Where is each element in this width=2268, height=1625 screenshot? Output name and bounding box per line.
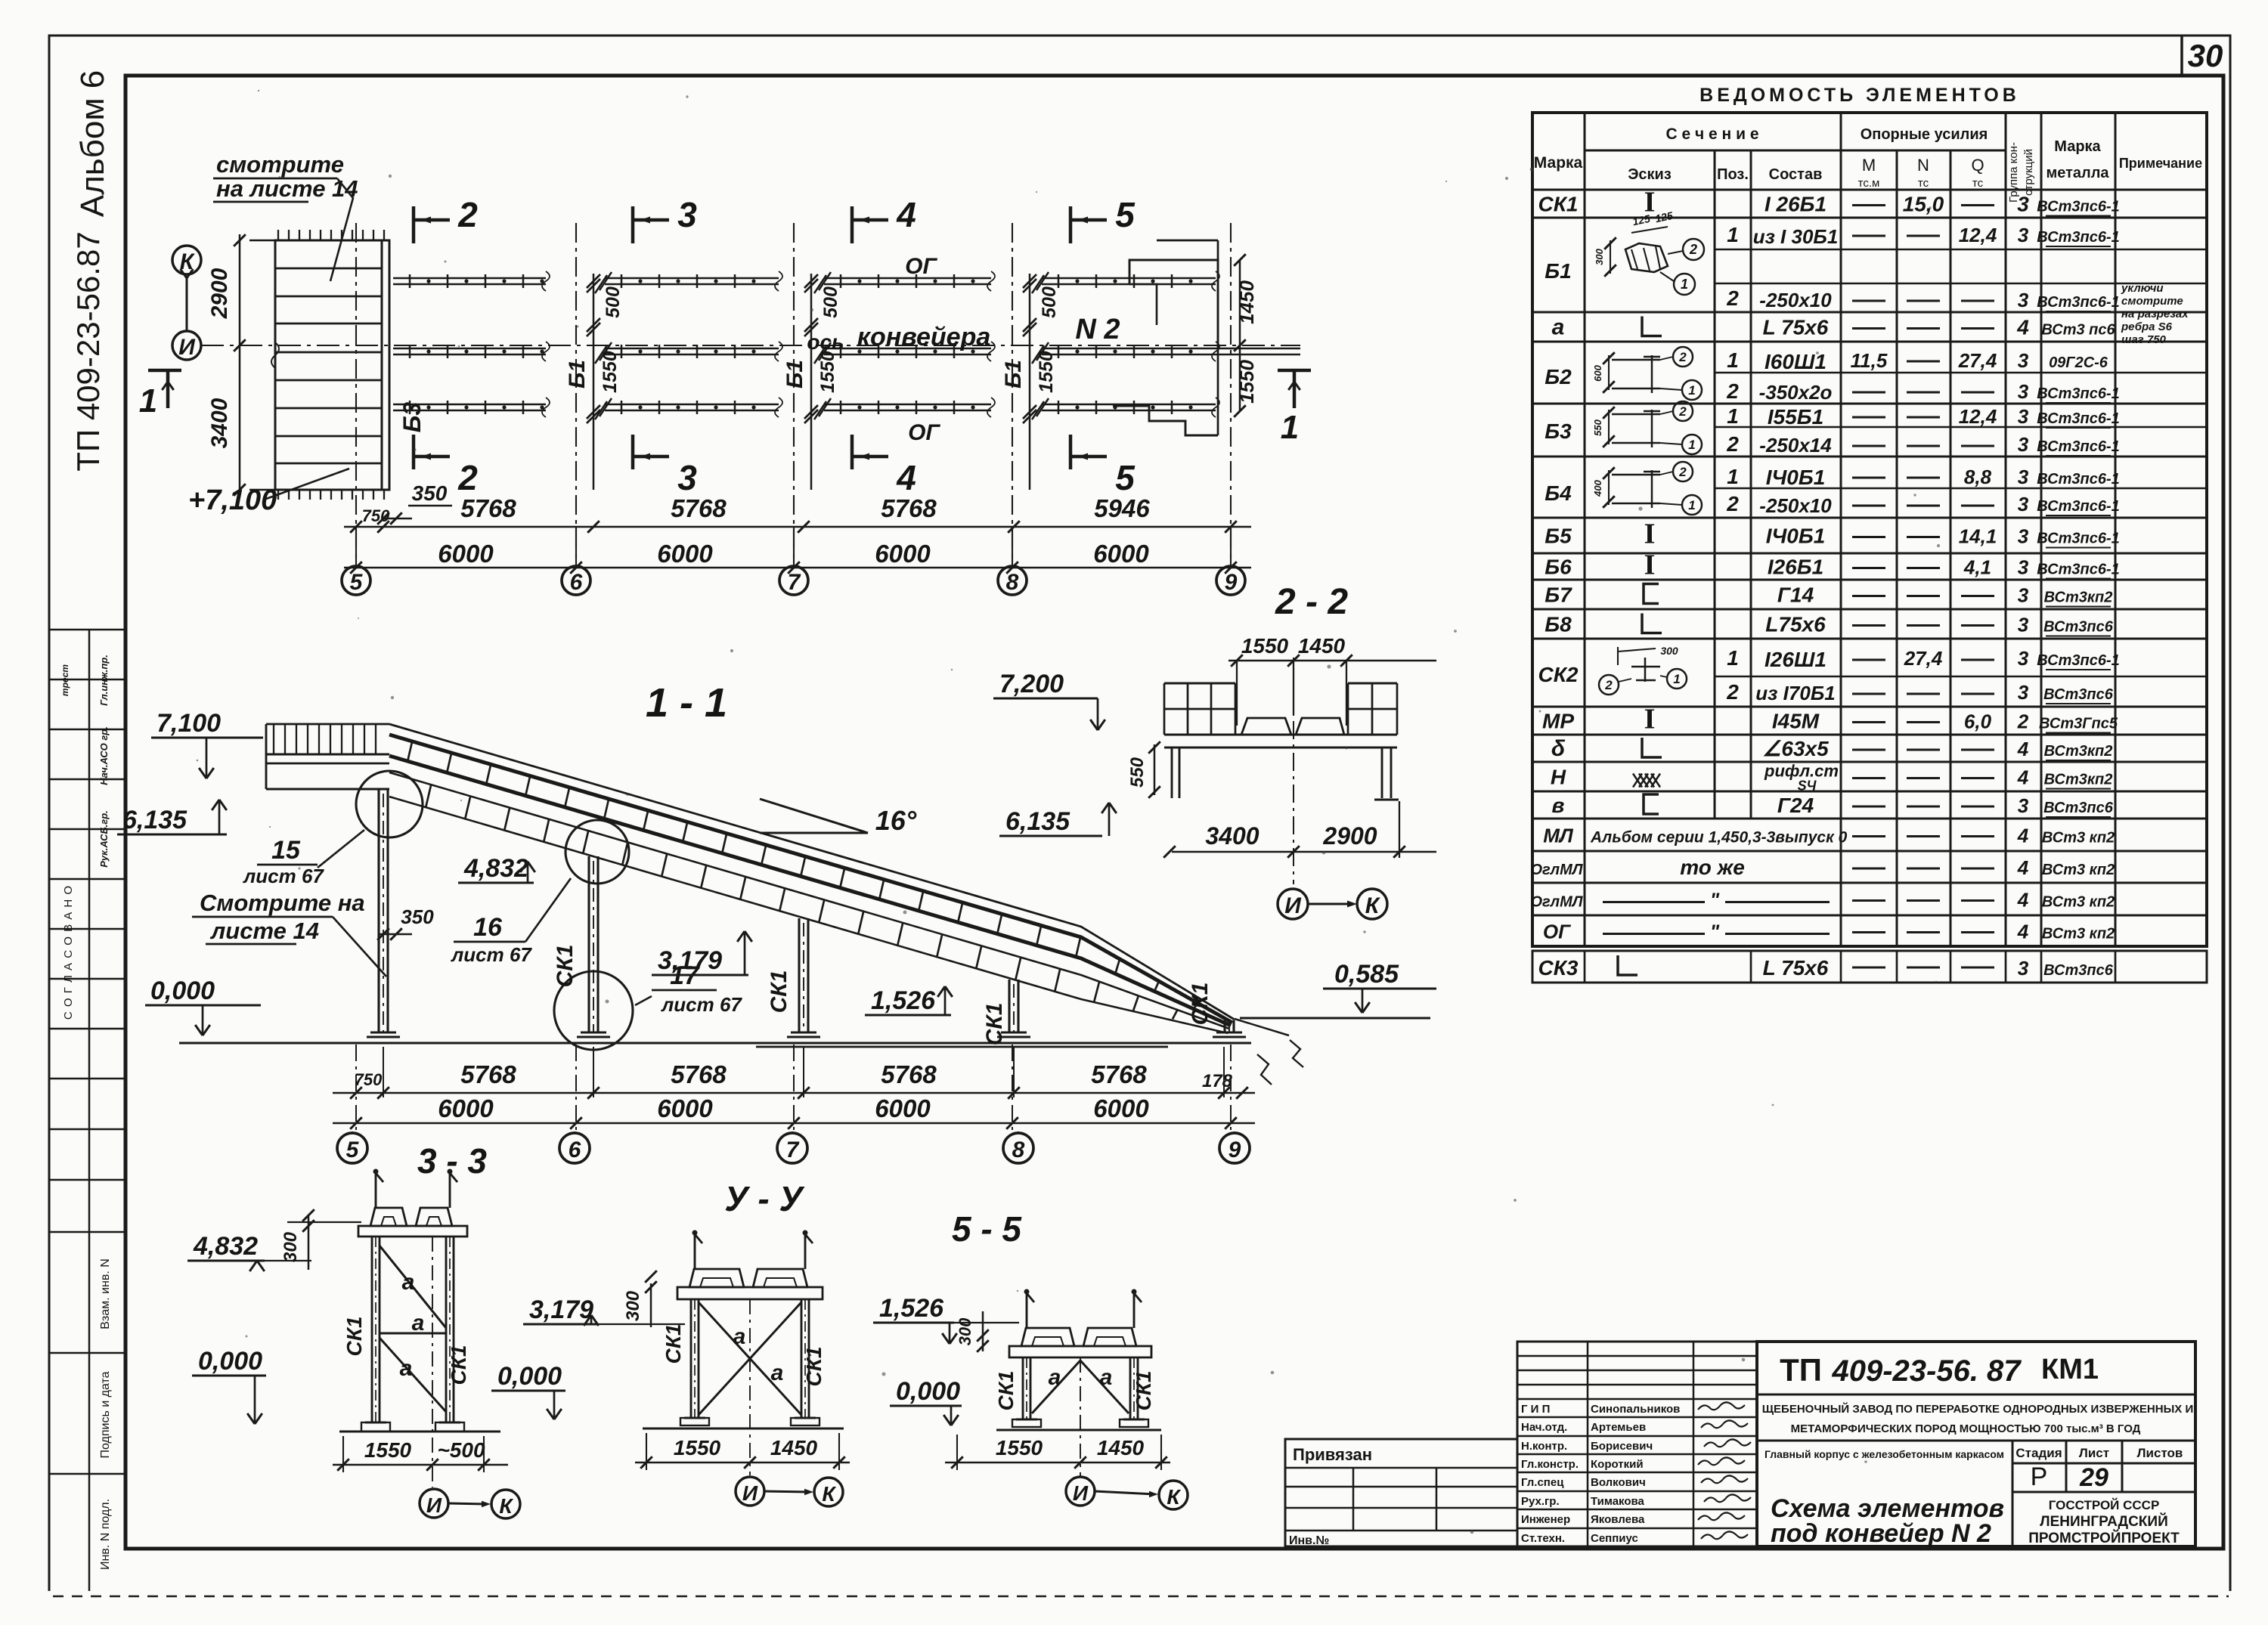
svg-text:+7,100: +7,100 xyxy=(188,484,277,516)
section 4-4 column frame xyxy=(694,1234,696,1269)
svg-text:1550: 1550 xyxy=(364,1438,412,1462)
svg-text:4,1: 4,1 xyxy=(1963,556,1991,579)
svg-text:Б3: Б3 xyxy=(1545,419,1572,443)
svg-text:6000: 6000 xyxy=(438,1094,494,1122)
svg-text:ВСт3 кп2: ВСт3 кп2 xyxy=(2042,862,2115,878)
svg-text:ВСт3пс6: ВСт3пс6 xyxy=(2043,686,2114,703)
grid bubble I xyxy=(172,331,201,360)
section 1-1: dimension row 750/5768/178 xyxy=(333,1092,1255,1094)
svg-text:Борисевич: Борисевич xyxy=(1591,1440,1653,1453)
svg-text:3: 3 xyxy=(677,458,697,497)
svg-text:на разрезах: на разрезах xyxy=(2121,308,2189,320)
svg-text:ВСт3пс6-1: ВСт3пс6-1 xyxy=(2037,562,2120,578)
svg-text:4: 4 xyxy=(2016,316,2029,339)
svg-text:шаг 750: шаг 750 xyxy=(2121,333,2167,346)
svg-text:2: 2 xyxy=(2017,710,2029,733)
svg-text:1550: 1550 xyxy=(600,351,621,393)
svg-text:Подпись и дата: Подпись и дата xyxy=(99,1371,112,1458)
svg-text:К: К xyxy=(822,1482,836,1506)
privyazan table xyxy=(1285,1439,1517,1546)
section 1-1: dimension row 6000 xyxy=(333,1122,1255,1125)
plan: right vertical dim 1450/1550 xyxy=(1239,260,1241,411)
svg-text:Смотрите на: Смотрите на xyxy=(200,890,365,916)
section 5-5 column frame xyxy=(1026,1293,1028,1328)
section 1-1: grid bubbles 5-9 xyxy=(337,1133,367,1163)
svg-text:5768: 5768 xyxy=(671,1060,727,1088)
svg-text:Б3: Б3 xyxy=(398,402,426,433)
svg-text:СК1: СК1 xyxy=(342,1316,366,1356)
svg-text:-250х14: -250х14 xyxy=(1759,434,1832,457)
svg-text:в: в xyxy=(1552,794,1565,817)
section 3-3 bottom dims 1550 / ~500 xyxy=(333,1464,508,1466)
plan: dimension row 6000 xyxy=(344,567,1251,569)
svg-text:350: 350 xyxy=(401,905,434,928)
svg-text:ВСт3кп2: ВСт3кп2 xyxy=(2044,590,2113,606)
svg-text:Инженер: Инженер xyxy=(1521,1513,1570,1526)
svg-text:лист 67: лист 67 xyxy=(660,993,742,1016)
plan: beam marks B1 and vertical dims 500/1550 at grids 6,7,8 xyxy=(593,274,595,490)
svg-text:2: 2 xyxy=(1678,404,1687,419)
svg-text:Р: Р xyxy=(2031,1462,2048,1491)
svg-text:4,832: 4,832 xyxy=(193,1232,258,1261)
svg-text:Б7: Б7 xyxy=(1545,583,1572,607)
svg-text:К: К xyxy=(1167,1485,1181,1509)
svg-text:L 75х6: L 75х6 xyxy=(1763,316,1829,339)
svg-text:СК1: СК1 xyxy=(994,1370,1018,1410)
section 1-1: ground at +0.585 right end xyxy=(1240,1017,1430,1019)
svg-text:СК1: СК1 xyxy=(661,1323,685,1363)
svg-text:смотрите: смотрите xyxy=(2121,295,2183,308)
svg-text:0,000: 0,000 xyxy=(150,977,215,1005)
svg-text:металла: металла xyxy=(2046,165,2109,181)
svg-text:ВСт3пс6-1: ВСт3пс6-1 xyxy=(2037,498,2120,515)
plan: stair platform block xyxy=(275,240,389,490)
svg-text:550: 550 xyxy=(1127,757,1148,788)
svg-text:СК1: СК1 xyxy=(447,1345,470,1385)
svg-text:Г24: Г24 xyxy=(1777,794,1814,817)
svg-text:1: 1 xyxy=(1727,465,1739,488)
svg-text:ВСт3пс6-1: ВСт3пс6-1 xyxy=(2037,385,2120,402)
svg-text:14,1: 14,1 xyxy=(1959,525,1997,548)
plan: break squiggle on block left edge xyxy=(271,342,279,368)
svg-text:С е ч е н и е: С е ч е н и е xyxy=(1666,125,1759,143)
svg-text:1550: 1550 xyxy=(1235,360,1258,404)
staff signature table xyxy=(1517,1342,1757,1546)
svg-text:ЩЕБЕНОЧНЫЙ ЗАВОД ПО ПЕРЕРАБОТК: ЩЕБЕНОЧНЫЙ ЗАВОД ПО ПЕРЕРАБОТКЕ ОДНОРОДН… xyxy=(1762,1402,2193,1416)
svg-text:а: а xyxy=(733,1324,746,1349)
svg-text:ВСт3Гпс5: ВСт3Гпс5 xyxy=(2039,716,2118,732)
svg-text:3: 3 xyxy=(2018,957,2029,980)
svg-text:Б1: Б1 xyxy=(1545,259,1571,283)
svg-text:4,832: 4,832 xyxy=(463,854,528,883)
svg-text:Б1: Б1 xyxy=(782,360,807,388)
svg-text:ВСт3пс6: ВСт3пс6 xyxy=(2043,962,2114,979)
plan: right end bracket bottom xyxy=(1113,406,1218,435)
svg-text:15: 15 xyxy=(271,836,301,865)
svg-text:9: 9 xyxy=(1228,1137,1241,1162)
beam sketch xyxy=(1608,410,1610,444)
svg-text:трест: трест xyxy=(60,664,70,696)
svg-text:2: 2 xyxy=(1678,350,1687,364)
svg-text:29: 29 xyxy=(2079,1463,2108,1492)
svg-text:300: 300 xyxy=(1660,645,1678,657)
svg-text:МЛ: МЛ xyxy=(1543,825,1574,847)
svg-text:09Г2С-6: 09Г2С-6 xyxy=(2049,354,2108,371)
svg-text:ВСт3пс6-1: ВСт3пс6-1 xyxy=(2037,471,2120,487)
svg-text:Волкович: Волкович xyxy=(1591,1476,1646,1489)
svg-text:Инв.№: Инв.№ xyxy=(1289,1534,1329,1547)
svg-text:6,135: 6,135 xyxy=(122,806,187,834)
svg-text:И: И xyxy=(1073,1481,1089,1505)
svg-text:тс: тс xyxy=(1918,177,1929,190)
svg-text:6000: 6000 xyxy=(438,540,494,568)
svg-text:-250х10: -250х10 xyxy=(1759,289,1832,311)
svg-text:4: 4 xyxy=(2017,825,2029,847)
svg-text:И: И xyxy=(1284,893,1302,918)
svg-text:а: а xyxy=(1100,1365,1113,1390)
svg-text:Б1: Б1 xyxy=(565,360,590,388)
svg-text:11,5: 11,5 xyxy=(1851,349,1888,372)
svg-text:ось: ось xyxy=(807,330,844,354)
beam sketch xyxy=(1608,470,1610,505)
svg-text:1: 1 xyxy=(1727,348,1739,372)
svg-text:СК1: СК1 xyxy=(982,1003,1007,1046)
scan noise specks xyxy=(810,308,813,311)
svg-text:6,0: 6,0 xyxy=(1964,710,1992,733)
plan: dimension row 5768/5946 xyxy=(344,526,1251,528)
svg-text:МЕТАМОРФИЧЕСКИХ ПОРОД МОЩНОСТЬ: МЕТАМОРФИЧЕСКИХ ПОРОД МОЩНОСТЬЮ 700 тыс.… xyxy=(1791,1422,2141,1435)
svg-text:1: 1 xyxy=(1688,383,1695,398)
svg-text:К: К xyxy=(1365,893,1381,918)
svg-text:1: 1 xyxy=(1727,646,1739,670)
svg-text:6000: 6000 xyxy=(875,540,931,568)
svg-text:3: 3 xyxy=(677,195,697,234)
svg-text:а: а xyxy=(771,1360,784,1385)
svg-text:Ст.техн.: Ст.техн. xyxy=(1521,1532,1565,1545)
svg-text:8: 8 xyxy=(1012,1137,1025,1162)
svg-text:1550: 1550 xyxy=(674,1436,721,1459)
svg-text:Тимакова: Тимакова xyxy=(1591,1495,1645,1508)
svg-text:27,4: 27,4 xyxy=(1904,647,1943,670)
svg-text:ГОССТРОЙ СССР: ГОССТРОЙ СССР xyxy=(2049,1498,2160,1512)
svg-text:L75х6: L75х6 xyxy=(1765,613,1826,636)
sheet number box 30 xyxy=(2180,36,2183,76)
svg-text:500: 500 xyxy=(1039,286,1060,318)
svg-text:то же: то же xyxy=(1680,856,1745,879)
svg-text:300: 300 xyxy=(1594,248,1605,265)
svg-text:6000: 6000 xyxy=(1093,1094,1149,1122)
svg-text:27,4: 27,4 xyxy=(1958,349,1997,372)
section 2-2: top dimension 1550/1450 xyxy=(1228,660,1436,662)
svg-text:тс.м: тс.м xyxy=(1858,177,1880,190)
section 4-4 axis bubbles I K xyxy=(736,1477,764,1506)
svg-text:Марка: Марка xyxy=(1534,154,1583,172)
svg-text:4: 4 xyxy=(2017,766,2029,789)
svg-text:3: 3 xyxy=(2018,556,2029,579)
svg-text:ВСт3пс6-1: ВСт3пс6-1 xyxy=(2037,294,2120,311)
svg-text:4: 4 xyxy=(2017,921,2029,943)
svg-text:Гл.спец: Гл.спец xyxy=(1521,1476,1564,1489)
svg-text:СК1: СК1 xyxy=(767,970,792,1014)
svg-text:4: 4 xyxy=(896,195,916,234)
svg-text:7: 7 xyxy=(788,570,801,595)
svg-text:12,4: 12,4 xyxy=(1959,224,1997,246)
svg-text:ОглМЛ: ОглМЛ xyxy=(1530,862,1583,878)
svg-text:2: 2 xyxy=(1726,286,1739,310)
svg-text:1: 1 xyxy=(1688,498,1695,512)
svg-text:из I70Б1: из I70Б1 xyxy=(1755,682,1835,704)
svg-text:лист 67: лист 67 xyxy=(450,943,532,966)
svg-text:5768: 5768 xyxy=(881,1060,937,1088)
svg-text:Q: Q xyxy=(1971,156,1984,175)
svg-text:Н: Н xyxy=(1551,766,1566,789)
svg-text:а: а xyxy=(402,1270,415,1295)
svg-text:-350х2о: -350х2о xyxy=(1759,381,1833,404)
svg-text:3400: 3400 xyxy=(1205,822,1259,850)
svg-text:ВСт3кп2: ВСт3кп2 xyxy=(2044,772,2113,788)
svg-text:2 - 2: 2 - 2 xyxy=(1275,582,1348,622)
svg-text:3: 3 xyxy=(2018,614,2029,636)
svg-text:5: 5 xyxy=(1115,195,1136,234)
svg-text:30: 30 xyxy=(2188,38,2223,73)
svg-text:Н.контр.: Н.контр. xyxy=(1521,1440,1567,1453)
svg-text:IЧ0Б1: IЧ0Б1 xyxy=(1766,525,1826,548)
svg-text:3,179: 3,179 xyxy=(658,946,722,975)
section 1-1: inclined conveyor gallery band xyxy=(389,724,1235,1020)
plan view: grid axis chain lines xyxy=(355,223,357,563)
svg-text:300: 300 xyxy=(623,1290,643,1321)
svg-text:6000: 6000 xyxy=(1093,540,1149,568)
svg-text:ВСт3пс6-1: ВСт3пс6-1 xyxy=(2037,531,2120,547)
svg-text:3: 3 xyxy=(2018,349,2029,372)
svg-text:лист 67: лист 67 xyxy=(242,865,324,887)
svg-text:а: а xyxy=(1049,1365,1061,1390)
plan: grid bubbles 5-9 xyxy=(355,527,357,565)
svg-text:5: 5 xyxy=(350,570,364,595)
svg-text:500: 500 xyxy=(603,286,624,318)
svg-text:3: 3 xyxy=(2018,794,2029,817)
svg-text:": " xyxy=(1710,889,1720,912)
svg-text:7: 7 xyxy=(786,1137,800,1162)
B1 sketch xyxy=(1625,243,1668,272)
svg-text:8: 8 xyxy=(1006,570,1019,595)
svg-text:Состав: Состав xyxy=(1769,166,1823,183)
svg-text:6: 6 xyxy=(569,1137,581,1162)
svg-text:Взам. инв. N: Взам. инв. N xyxy=(99,1258,112,1329)
svg-text:3: 3 xyxy=(2018,380,2029,403)
svg-text:3: 3 xyxy=(2018,647,2029,670)
svg-text:3: 3 xyxy=(2018,433,2029,456)
plan: right end bracket top xyxy=(1129,260,1218,351)
section 2-2: axis bubbles I K xyxy=(1278,889,1308,919)
svg-text:Главный корпус с железобетонны: Главный корпус с железобетонным каркасом xyxy=(1765,1448,2004,1460)
svg-text:1,526: 1,526 xyxy=(879,1294,944,1323)
svg-text:6000: 6000 xyxy=(657,1094,713,1122)
svg-text:2: 2 xyxy=(1726,680,1739,704)
svg-text:1: 1 xyxy=(1281,409,1299,446)
svg-text:ТП: ТП xyxy=(1780,1352,1822,1388)
svg-text:6: 6 xyxy=(570,570,583,595)
svg-text:1550: 1550 xyxy=(996,1436,1043,1459)
svg-text:6000: 6000 xyxy=(875,1094,931,1122)
svg-text:ОГ: ОГ xyxy=(905,254,937,279)
svg-text:3: 3 xyxy=(2018,681,2029,704)
section 1-1: ground line 0.000 xyxy=(179,1042,1251,1045)
svg-text:1: 1 xyxy=(1727,404,1739,428)
svg-text:ВСт3пс6-1: ВСт3пс6-1 xyxy=(2037,410,2120,427)
svg-text:400: 400 xyxy=(1592,479,1603,497)
svg-text:8,8: 8,8 xyxy=(1964,466,1992,488)
svg-text:I 26Б1: I 26Б1 xyxy=(1765,193,1826,216)
svg-text:": " xyxy=(1710,921,1720,943)
section 2-2: bottom dimension 3400/2900 xyxy=(1172,851,1436,853)
svg-text:3: 3 xyxy=(2018,224,2029,246)
section 4-4 bottom dims 1550/1450 xyxy=(635,1462,850,1464)
section 1-1: columns SK1 at grids 5-9 xyxy=(377,789,380,1032)
svg-text:СК1: СК1 xyxy=(802,1346,826,1386)
rifled steel hatch symbol xyxy=(1633,774,1642,788)
svg-text:δ: δ xyxy=(1551,736,1566,761)
svg-text:ВСт3пс6-1: ВСт3пс6-1 xyxy=(2037,229,2120,246)
svg-text:3: 3 xyxy=(2018,525,2029,548)
svg-text:1550: 1550 xyxy=(1036,351,1057,393)
svg-text:1: 1 xyxy=(1681,277,1688,292)
section 2-2: ribbed slab sections xyxy=(1241,718,1291,735)
beam sketch xyxy=(1608,355,1610,390)
svg-text:∠63х5: ∠63х5 xyxy=(1762,737,1829,760)
svg-text:I: I xyxy=(1644,518,1656,550)
svg-text:L 75х6: L 75х6 xyxy=(1763,956,1829,980)
svg-text:уключи: уключи xyxy=(2121,282,2164,295)
svg-text:1,526: 1,526 xyxy=(871,986,936,1015)
svg-text:Г14: Г14 xyxy=(1777,583,1814,607)
svg-text:I55Б1: I55Б1 xyxy=(1768,405,1823,429)
svg-text:Короткий: Короткий xyxy=(1591,1458,1644,1471)
section 1-1: top platform deck at +7.100 xyxy=(266,723,389,726)
svg-text:СК1: СК1 xyxy=(1188,983,1213,1026)
svg-text:С О Г Л А С О В А Н О: С О Г Л А С О В А Н О xyxy=(62,885,75,1020)
svg-text:1450: 1450 xyxy=(770,1436,818,1459)
svg-text:И: И xyxy=(178,335,196,360)
svg-text:Листов: Листов xyxy=(2137,1446,2183,1460)
svg-text:ВСт3 кп2: ВСт3 кп2 xyxy=(2042,926,2115,942)
svg-text:1450: 1450 xyxy=(1097,1436,1145,1459)
svg-text:Сеппиус: Сеппиус xyxy=(1591,1532,1638,1545)
svg-text:4: 4 xyxy=(2017,889,2029,912)
grid bubble K xyxy=(172,246,201,274)
svg-text:Б2: Б2 xyxy=(1545,365,1572,388)
svg-text:600: 600 xyxy=(1592,364,1603,381)
svg-text:Нач.АСО гр.: Нач.АСО гр. xyxy=(98,726,110,785)
svg-text:2: 2 xyxy=(1604,678,1613,692)
svg-text:СК1: СК1 xyxy=(553,945,578,988)
svg-text:ВСт3пс6-1: ВСт3пс6-1 xyxy=(2037,652,2120,669)
svg-text:2900: 2900 xyxy=(207,268,232,319)
svg-text:ОглМЛ: ОглМЛ xyxy=(1530,894,1583,911)
svg-text:I26Ш1: I26Ш1 xyxy=(1765,648,1826,671)
svg-text:0,585: 0,585 xyxy=(1334,960,1399,989)
svg-text:смотрите: смотрите xyxy=(216,151,344,178)
svg-text:СК3: СК3 xyxy=(1538,956,1578,980)
svg-text:ВСт3пс6: ВСт3пс6 xyxy=(2043,619,2114,636)
svg-text:конвейера: конвейера xyxy=(857,323,991,351)
svg-text:1: 1 xyxy=(1673,672,1680,686)
svg-text:под конвейер N 2: под конвейер N 2 xyxy=(1771,1519,1991,1548)
svg-text:1: 1 xyxy=(139,382,157,419)
svg-text:СК1: СК1 xyxy=(1132,1370,1155,1410)
svg-text:Артемьев: Артемьев xyxy=(1591,1421,1646,1434)
svg-text:N 2: N 2 xyxy=(1075,314,1120,345)
plan: section cut flags 2 3 4 5 (top and bottom) xyxy=(412,206,416,243)
svg-text:Гл.констр.: Гл.констр. xyxy=(1521,1458,1579,1471)
svg-text:16: 16 xyxy=(473,913,503,942)
svg-text:Лист: Лист xyxy=(2079,1446,2109,1460)
svg-text:5768: 5768 xyxy=(881,494,937,522)
svg-text:5: 5 xyxy=(346,1137,360,1162)
svg-text:листе 14: листе 14 xyxy=(209,918,319,944)
svg-text:409-23-56. 87: 409-23-56. 87 xyxy=(1831,1354,2022,1388)
svg-text:1: 1 xyxy=(1688,438,1695,452)
svg-text:SЧ: SЧ xyxy=(1798,778,1817,794)
svg-text:ОГ: ОГ xyxy=(1543,921,1571,943)
svg-text:0,000: 0,000 xyxy=(198,1347,262,1376)
svg-text:-250х10: -250х10 xyxy=(1759,494,1832,517)
svg-text:I: I xyxy=(1644,704,1656,735)
svg-text:Инв. N подл.: Инв. N подл. xyxy=(99,1499,112,1570)
section 5-5 bottom dims 1550/1450 xyxy=(945,1462,1170,1464)
svg-text:178: 178 xyxy=(1202,1071,1233,1091)
svg-text:0,000: 0,000 xyxy=(896,1377,960,1406)
section 5-5 axis bubbles I K xyxy=(1066,1477,1095,1506)
svg-text:Стадия: Стадия xyxy=(2015,1446,2062,1460)
svg-text:К: К xyxy=(499,1494,513,1518)
svg-text:750: 750 xyxy=(355,1070,383,1089)
svg-text:ВСт3пс6-1: ВСт3пс6-1 xyxy=(2037,199,2120,215)
svg-text:а: а xyxy=(412,1311,425,1336)
svg-text:ВЕДОМОСТЬ ЭЛЕМЕНТОВ: ВЕДОМОСТЬ ЭЛЕМЕНТОВ xyxy=(1699,85,2020,106)
svg-text:Опорные усилия: Опорные усилия xyxy=(1861,126,1988,143)
svg-text:тс: тс xyxy=(1972,177,1984,190)
CK2 sketch xyxy=(1618,648,1656,652)
svg-text:Б1: Б1 xyxy=(1001,360,1026,388)
svg-text:~500: ~500 xyxy=(437,1438,485,1462)
svg-text:Яковлева: Яковлева xyxy=(1591,1513,1645,1526)
svg-text:Альбом 6: Альбом 6 xyxy=(74,70,111,218)
svg-text:IЧ0Б1: IЧ0Б1 xyxy=(1766,466,1826,489)
svg-text:2: 2 xyxy=(457,458,478,497)
svg-text:5768: 5768 xyxy=(460,494,516,522)
section 2-2: support legs xyxy=(1171,747,1173,798)
svg-text:Поз.: Поз. xyxy=(1717,166,1749,183)
svg-text:Г И П: Г И П xyxy=(1521,1403,1550,1416)
section 3-3 column frame xyxy=(375,1173,377,1208)
svg-text:Б4: Б4 xyxy=(1545,481,1572,505)
svg-text:2: 2 xyxy=(1726,379,1739,403)
svg-text:ВСт3 пс6: ВСт3 пс6 xyxy=(2041,322,2115,339)
svg-text:1550: 1550 xyxy=(1241,634,1289,658)
svg-text:300: 300 xyxy=(280,1231,301,1262)
plan: section cut flags 1 (left and right) xyxy=(148,369,181,373)
section 2-2: beam xyxy=(1164,734,1397,736)
svg-text:Альбом серии 1,450,3-3выпуск 0: Альбом серии 1,450,3-3выпуск 0 xyxy=(1590,829,1848,847)
svg-text:Примечание: Примечание xyxy=(2119,156,2202,171)
svg-text:7,200: 7,200 xyxy=(999,670,1064,698)
svg-text:Гл.инж.пр.: Гл.инж.пр. xyxy=(98,655,110,706)
svg-text:3: 3 xyxy=(2018,289,2029,311)
svg-text:ВСт3 кп2: ВСт3 кп2 xyxy=(2042,830,2115,847)
svg-text:I26Б1: I26Б1 xyxy=(1768,556,1823,579)
svg-text:0,000: 0,000 xyxy=(497,1362,562,1391)
